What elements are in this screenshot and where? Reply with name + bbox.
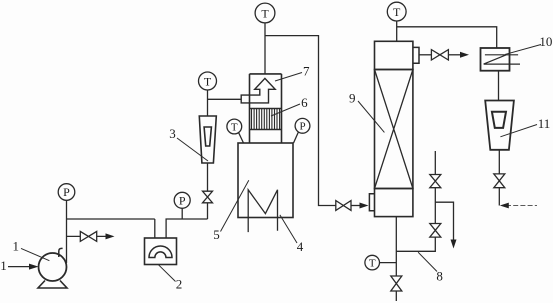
wire T to column top [396,21,398,41]
leader line label 2 [159,265,176,282]
main discharge wire [67,218,155,220]
leader line label 9 [358,101,384,132]
leader line label 7 [275,73,302,82]
outlet wire [498,188,500,206]
wire between valves [434,188,436,224]
svg-text:T: T [369,258,376,270]
pump inlet arrowhead [29,264,39,270]
reflux valve [431,50,448,60]
gauge T stub wire [239,133,244,143]
condenser 10 box [481,48,510,71]
temperature gauge T (bottoms) [365,255,380,270]
wire rotameter 11 to valve [498,150,500,174]
svg-text:5: 5 [213,227,220,242]
pump riser wire [66,200,68,263]
wire valve to arrow [448,54,461,56]
packing band 6 bottom line [250,129,282,131]
arrowhead to condenser [460,52,469,58]
rotameter 3 body [199,116,216,163]
outlet arrowhead (left) [500,203,509,209]
rotameter 11 body [485,101,514,150]
leader line label 3 [177,138,208,161]
wire valve to drain junction [396,237,435,251]
riser wire to valve [207,203,209,219]
pump inlet line [8,266,31,268]
vent valve lower [430,224,441,238]
leader line label 6 [271,104,300,116]
pressure gauge P (vessel neck) [295,118,310,133]
svg-text:T: T [393,5,401,19]
pump discharge spout [59,248,63,257]
bypass outlet arrowhead [106,233,115,239]
wire nozzle to valve [419,54,431,56]
wire into controller 2 [154,219,156,238]
sample outlet arrowhead (down) [451,240,457,249]
column feed arrowhead [360,203,369,209]
bent block arrow (vapor) in unit 7 [241,78,275,103]
temperature gauge T (column top) [387,2,406,21]
svg-text:P: P [63,185,70,199]
temperature gauge T (feed) [199,72,217,90]
rotameter 11 float [492,112,506,128]
svg-text:1: 1 [0,258,7,273]
feed wire to evaporator arm [208,98,242,100]
svg-text:9: 9 [349,91,356,106]
valve below rotameter 3 [203,191,213,203]
svg-text:T: T [261,7,269,21]
packing band 6 hatch [252,109,280,130]
condenser 10 coil [484,55,520,64]
svg-text:4: 4 [297,239,304,254]
pressure gauge P (pump) [58,184,75,201]
leader line label 10 [505,45,541,55]
electric heater 4 [248,190,277,232]
column 9 packed section [375,70,413,189]
controller 2 box [145,238,177,265]
svg-text:10: 10 [539,34,552,49]
gauge stub wire [380,262,397,264]
wire rotameter 3 to gauge T [207,90,209,116]
outlet horizontal wire [506,205,537,207]
drain valve [391,276,402,291]
svg-text:8: 8 [436,268,443,283]
wire valve to column [351,205,362,207]
svg-text:3: 3 [169,126,176,141]
wire condenser to rotameter 11 [498,71,500,101]
rotameter 3 float tube [204,127,211,146]
column feed nozzle [369,194,374,211]
leader line label 4 [280,215,297,243]
gauge stub wire [181,208,183,219]
svg-text:6: 6 [301,95,308,110]
svg-text:2: 2 [176,276,183,291]
svg-text:T: T [204,74,212,88]
svg-text:1: 1 [13,238,20,253]
vent wire (right stack) [434,151,436,175]
evaporator vessel 5 [238,143,293,218]
temperature gauge T (evaporator top) [255,3,275,23]
column feed valve [336,201,351,211]
pressure gauge P (line) [174,192,190,208]
vapor wire to column [265,36,336,206]
leader line label 1 to pump [21,248,49,260]
svg-text:T: T [231,121,238,133]
vent valve upper [430,175,441,188]
svg-text:P: P [179,193,186,207]
svg-text:P: P [299,121,305,133]
branch wire to sample outlet [435,202,453,241]
svg-text:11: 11 [538,116,551,131]
leader line label 5 [221,180,249,231]
svg-text:7: 7 [303,63,310,78]
column 9 packing X [375,70,413,189]
bypass wire [67,235,108,237]
column 9 sump [375,189,413,217]
pump 1 body [39,253,67,281]
evaporator top section walls (unit 7) [250,74,282,143]
temperature gauge T (vessel neck) [227,119,242,134]
bypass valve [80,231,96,241]
leader line label 8 [418,252,437,271]
controller 2 dial arc [149,246,172,258]
overhead vapor wire to condenser [397,27,497,48]
packing band 6 top line [250,108,282,110]
column 9 top right nozzle [413,47,419,63]
gauge P stub wire [294,132,299,143]
wire valve to rotameter 3 [207,163,209,191]
column 9 top section [375,41,413,69]
column bottom drain wire [395,217,397,276]
wire T to unit 7 top [264,23,266,74]
drain outlet wire [395,291,397,301]
leader line label 11 [500,125,537,137]
pump base [38,281,67,289]
valve below rotameter 11 [494,174,505,188]
wire out of controller 2 [166,219,207,238]
